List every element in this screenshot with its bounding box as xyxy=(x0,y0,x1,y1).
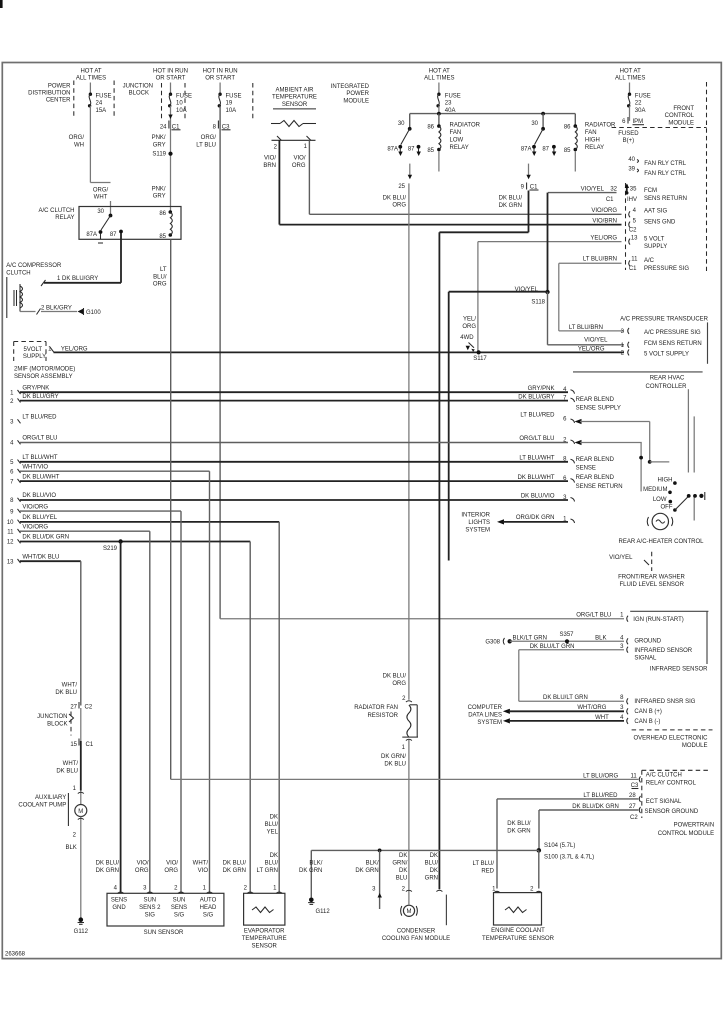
svg-text:RADIATOR: RADIATOR xyxy=(450,123,481,129)
svg-text:SUPPLY: SUPPLY xyxy=(23,354,46,360)
svg-text:A/C COMPRESSOR: A/C COMPRESSOR xyxy=(6,263,62,269)
svg-text:M: M xyxy=(407,909,412,915)
svg-text:COMPUTER: COMPUTER xyxy=(468,705,503,711)
svg-text:C1: C1 xyxy=(86,742,94,748)
svg-text:VIO/: VIO/ xyxy=(264,156,276,162)
svg-text:28: 28 xyxy=(629,793,636,799)
svg-text:GRN/: GRN/ xyxy=(392,861,407,867)
svg-text:1: 1 xyxy=(304,144,308,150)
svg-text:4: 4 xyxy=(620,715,624,721)
svg-text:BLK: BLK xyxy=(65,845,76,851)
svg-text:FLUID LEVEL SENSOR: FLUID LEVEL SENSOR xyxy=(619,582,684,588)
svg-text:1: 1 xyxy=(273,886,277,892)
svg-text:LT BLU/RED: LT BLU/RED xyxy=(22,415,57,421)
svg-text:85: 85 xyxy=(564,148,571,154)
svg-text:6: 6 xyxy=(10,469,14,475)
svg-text:INFRARED SNSR SIG: INFRARED SNSR SIG xyxy=(634,699,695,705)
svg-text:MEDIUM: MEDIUM xyxy=(643,487,667,493)
svg-text:ORG: ORG xyxy=(135,868,149,874)
svg-text:CENTER: CENTER xyxy=(46,98,71,104)
svg-text:RADIATOR: RADIATOR xyxy=(585,123,616,129)
svg-text:S/G: S/G xyxy=(174,913,185,919)
svg-text:M: M xyxy=(78,809,83,815)
svg-text:6: 6 xyxy=(563,416,567,422)
svg-text:RADIATOR FAN: RADIATOR FAN xyxy=(354,705,398,711)
svg-text:CONTROLLER: CONTROLLER xyxy=(645,384,687,390)
svg-text:DK GRN: DK GRN xyxy=(499,203,522,209)
svg-text:8: 8 xyxy=(10,498,14,504)
svg-text:87: 87 xyxy=(542,146,549,152)
svg-text:4WD: 4WD xyxy=(460,335,474,341)
svg-text:DK BLU/: DK BLU/ xyxy=(223,861,247,867)
svg-text:ALL TIMES: ALL TIMES xyxy=(615,76,645,82)
svg-text:2: 2 xyxy=(402,696,406,702)
svg-text:FAN RLY CTRL: FAN RLY CTRL xyxy=(644,161,686,167)
svg-text:SYSTEM: SYSTEM xyxy=(477,720,502,726)
svg-text:DK BLU/: DK BLU/ xyxy=(383,673,407,679)
svg-text:87: 87 xyxy=(408,146,415,152)
svg-text:DK: DK xyxy=(399,868,407,874)
svg-text:85: 85 xyxy=(159,234,166,240)
svg-text:RELAY CONTROL: RELAY CONTROL xyxy=(646,781,697,787)
svg-text:POWERTRAIN: POWERTRAIN xyxy=(674,823,715,829)
svg-text:87A: 87A xyxy=(521,146,532,152)
svg-text:C1: C1 xyxy=(629,266,637,272)
svg-text:LT BLU/: LT BLU/ xyxy=(473,861,495,867)
svg-text:BLOCK: BLOCK xyxy=(47,722,67,728)
svg-text:C2: C2 xyxy=(629,228,637,234)
svg-text:A/C CLUTCH: A/C CLUTCH xyxy=(38,208,74,214)
svg-text:MODULE: MODULE xyxy=(668,120,694,126)
svg-text:DK BLU/GRY: DK BLU/GRY xyxy=(518,394,554,400)
svg-text:GROUND: GROUND xyxy=(634,639,661,645)
svg-text:SIGNAL: SIGNAL xyxy=(634,656,657,662)
svg-text:LT BLU/WHT: LT BLU/WHT xyxy=(519,456,554,462)
svg-text:15: 15 xyxy=(70,742,77,748)
svg-text:ORG/LT BLU: ORG/LT BLU xyxy=(576,612,611,618)
svg-text:SENSE: SENSE xyxy=(576,465,596,471)
svg-text:SYSTEM: SYSTEM xyxy=(465,527,490,533)
svg-text:BLU: BLU xyxy=(396,876,408,882)
svg-text:LOW: LOW xyxy=(450,138,464,144)
svg-text:3: 3 xyxy=(10,420,14,426)
svg-text:VIO/ORG: VIO/ORG xyxy=(22,524,48,530)
svg-text:86: 86 xyxy=(427,125,434,131)
svg-text:CONDENSER: CONDENSER xyxy=(397,928,436,934)
svg-text:10A: 10A xyxy=(176,108,187,114)
svg-text:BLU/: BLU/ xyxy=(265,861,279,867)
svg-text:VIO/: VIO/ xyxy=(166,861,178,867)
svg-text:FUSE: FUSE xyxy=(226,93,242,99)
svg-text:DK BLU/YEL: DK BLU/YEL xyxy=(22,515,57,521)
svg-text:REAR HVAC: REAR HVAC xyxy=(650,376,685,382)
svg-text:1: 1 xyxy=(203,886,207,892)
svg-text:AUTO: AUTO xyxy=(200,898,217,904)
svg-text:15A: 15A xyxy=(96,108,107,114)
svg-text:BLOCK: BLOCK xyxy=(129,91,149,97)
svg-text:12: 12 xyxy=(7,540,14,546)
svg-text:LT BLU/ORG: LT BLU/ORG xyxy=(583,773,618,779)
svg-text:BLU/: BLU/ xyxy=(265,822,279,828)
svg-text:A/C PRESSURE TRANSDUCER: A/C PRESSURE TRANSDUCER xyxy=(620,317,709,323)
svg-text:CONTROL MODULE: CONTROL MODULE xyxy=(658,831,714,837)
svg-text:WHT/VIO: WHT/VIO xyxy=(22,464,48,470)
svg-text:REAR BLEND: REAR BLEND xyxy=(576,475,615,481)
svg-text:2: 2 xyxy=(10,399,14,405)
svg-text:VIO/ORG: VIO/ORG xyxy=(591,208,617,214)
svg-text:VIO: VIO xyxy=(198,868,209,874)
svg-text:DK BLU/: DK BLU/ xyxy=(96,861,120,867)
svg-text:PRESSURE SIG: PRESSURE SIG xyxy=(644,266,689,272)
svg-text:INFRARED SENSOR: INFRARED SENSOR xyxy=(634,648,692,654)
svg-text:AUXILIARY: AUXILIARY xyxy=(35,795,66,801)
svg-text:87A: 87A xyxy=(387,146,398,152)
svg-text:TEMPERATURE SENSOR: TEMPERATURE SENSOR xyxy=(482,936,555,942)
svg-text:WHT: WHT xyxy=(94,194,108,200)
svg-text:3: 3 xyxy=(621,329,625,335)
svg-text:BLK/LT GRN: BLK/LT GRN xyxy=(513,635,547,641)
svg-text:ORG/LT BLU: ORG/LT BLU xyxy=(519,436,554,442)
svg-text:ALL TIMES: ALL TIMES xyxy=(76,76,106,82)
svg-text:9: 9 xyxy=(521,185,525,191)
svg-text:DISTRIBUTION: DISTRIBUTION xyxy=(28,91,70,97)
svg-text:DK: DK xyxy=(430,868,438,874)
svg-text:5 VOLT: 5 VOLT xyxy=(644,236,665,242)
svg-text:WHT/ORG: WHT/ORG xyxy=(577,705,606,711)
svg-text:A/C CLUTCH: A/C CLUTCH xyxy=(646,772,682,778)
svg-text:1: 1 xyxy=(73,786,77,792)
svg-text:30: 30 xyxy=(531,121,538,127)
svg-text:11: 11 xyxy=(7,529,14,535)
svg-text:1: 1 xyxy=(402,745,406,751)
svg-text:VIO/: VIO/ xyxy=(293,156,305,162)
svg-text:FAN RLY CTRL: FAN RLY CTRL xyxy=(644,171,686,177)
svg-text:SENSOR GROUND: SENSOR GROUND xyxy=(645,809,699,815)
svg-text:25: 25 xyxy=(398,184,405,190)
svg-text:ORG/: ORG/ xyxy=(93,187,109,193)
svg-text:4: 4 xyxy=(620,635,624,641)
svg-text:PNK/: PNK/ xyxy=(152,135,166,141)
svg-text:ORG: ORG xyxy=(392,681,406,687)
svg-text:40: 40 xyxy=(628,157,635,163)
svg-text:DK GRN: DK GRN xyxy=(299,868,322,874)
svg-text:IGN (RUN-START): IGN (RUN-START) xyxy=(633,617,683,623)
svg-text:2MIF (MOTOR/MODE): 2MIF (MOTOR/MODE) xyxy=(14,367,75,373)
svg-text:DK BLU/DK GRN: DK BLU/DK GRN xyxy=(22,535,69,541)
svg-text:24: 24 xyxy=(160,124,167,130)
svg-text:SENS RETURN: SENS RETURN xyxy=(644,196,687,202)
svg-text:86: 86 xyxy=(159,211,166,217)
svg-text:BLK/: BLK/ xyxy=(309,861,322,867)
svg-text:WHT/DK BLU: WHT/DK BLU xyxy=(22,554,59,560)
svg-text:BLK/: BLK/ xyxy=(366,861,379,867)
svg-text:DATA LINES: DATA LINES xyxy=(468,712,502,718)
svg-text:8: 8 xyxy=(213,124,217,130)
svg-text:TEMPERATURE: TEMPERATURE xyxy=(272,95,317,101)
svg-text:87A: 87A xyxy=(86,232,97,238)
svg-text:A/C: A/C xyxy=(644,258,655,264)
svg-text:VIO/: VIO/ xyxy=(137,861,149,867)
svg-text:2: 2 xyxy=(621,351,625,357)
svg-text:DK BLU/DK GRN: DK BLU/DK GRN xyxy=(572,804,619,810)
svg-text:2: 2 xyxy=(174,886,178,892)
svg-text:SENSE RETURN: SENSE RETURN xyxy=(576,484,623,490)
svg-text:S117: S117 xyxy=(473,356,487,362)
svg-text:GRN: GRN xyxy=(425,876,438,882)
svg-text:13: 13 xyxy=(7,559,14,565)
svg-text:13: 13 xyxy=(631,236,638,242)
svg-text:27: 27 xyxy=(70,705,77,711)
svg-text:2: 2 xyxy=(274,144,278,150)
svg-text:YEL/ORG: YEL/ORG xyxy=(590,236,617,242)
svg-text:PNK/: PNK/ xyxy=(152,187,166,193)
svg-text:DK GRN: DK GRN xyxy=(507,828,530,834)
svg-text:HOT IN RUN: HOT IN RUN xyxy=(203,68,238,74)
svg-text:SENS: SENS xyxy=(111,898,127,904)
svg-text:BRN: BRN xyxy=(263,163,276,169)
svg-text:BLU/: BLU/ xyxy=(153,274,167,280)
svg-text:3: 3 xyxy=(620,705,624,711)
svg-text:COOLANT PUMP: COOLANT PUMP xyxy=(18,803,66,809)
svg-text:2 BLK/GRY: 2 BLK/GRY xyxy=(41,305,72,311)
svg-text:87: 87 xyxy=(110,232,117,238)
svg-text:INFRARED SENSOR: INFRARED SENSOR xyxy=(650,666,708,672)
svg-text:86: 86 xyxy=(564,125,571,131)
svg-text:VIO/ORG: VIO/ORG xyxy=(22,504,48,510)
svg-text:DK BLU/VIO: DK BLU/VIO xyxy=(22,493,56,499)
svg-text:S/G: S/G xyxy=(203,913,214,919)
svg-text:22: 22 xyxy=(635,101,642,107)
svg-text:24: 24 xyxy=(96,101,103,107)
svg-text:7: 7 xyxy=(10,479,14,485)
svg-text:C2: C2 xyxy=(630,815,638,821)
svg-text:ORG/LT BLU: ORG/LT BLU xyxy=(22,436,57,442)
svg-text:ECT SIGNAL: ECT SIGNAL xyxy=(646,799,682,805)
svg-text:ORG: ORG xyxy=(292,163,306,169)
svg-text:S219: S219 xyxy=(103,546,118,552)
svg-text:SUN: SUN xyxy=(143,898,156,904)
svg-text:ENGINE COOLANT: ENGINE COOLANT xyxy=(491,928,545,934)
svg-text:EVAPORATOR: EVAPORATOR xyxy=(244,928,285,934)
svg-text:11: 11 xyxy=(631,257,638,263)
svg-text:G112: G112 xyxy=(74,929,89,935)
svg-text:1: 1 xyxy=(10,390,14,396)
svg-text:SUPPLY: SUPPLY xyxy=(644,244,667,250)
svg-text:32: 32 xyxy=(610,187,617,193)
svg-text:A/C PRESSURE SIG: A/C PRESSURE SIG xyxy=(644,330,701,336)
svg-text:DK: DK xyxy=(270,853,278,859)
svg-text:S104 (5.7L): S104 (5.7L) xyxy=(544,843,575,849)
svg-text:REAR BLEND: REAR BLEND xyxy=(576,397,615,403)
svg-text:30: 30 xyxy=(398,121,405,127)
svg-text:DK GRN: DK GRN xyxy=(96,868,119,874)
svg-text:POWER: POWER xyxy=(346,91,369,97)
svg-text:INTERIOR: INTERIOR xyxy=(461,512,490,518)
svg-text:IHV: IHV xyxy=(627,197,637,203)
svg-text:CLUTCH: CLUTCH xyxy=(6,270,30,276)
svg-text:DK BLU/VIO: DK BLU/VIO xyxy=(521,494,555,500)
svg-text:INTEGRATED: INTEGRATED xyxy=(331,84,370,90)
svg-text:5VOLT: 5VOLT xyxy=(24,347,43,353)
svg-text:DK GRN: DK GRN xyxy=(355,868,378,874)
svg-text:TEMPERATURE: TEMPERATURE xyxy=(242,936,287,942)
svg-text:LT GRN: LT GRN xyxy=(257,868,278,874)
svg-text:5: 5 xyxy=(633,219,637,225)
svg-text:FUSE: FUSE xyxy=(176,93,192,99)
svg-text:GRY: GRY xyxy=(153,194,166,200)
svg-text:19: 19 xyxy=(226,101,233,107)
svg-text:DK BLU: DK BLU xyxy=(384,762,406,768)
svg-text:CAN B (-): CAN B (-) xyxy=(634,719,660,725)
svg-text:FCM: FCM xyxy=(644,188,657,194)
svg-text:RELAY: RELAY xyxy=(450,145,469,151)
svg-text:3: 3 xyxy=(372,887,376,893)
svg-text:2: 2 xyxy=(530,886,534,892)
svg-text:SENSE SUPPLY: SENSE SUPPLY xyxy=(576,405,621,411)
svg-text:3: 3 xyxy=(620,644,624,650)
svg-text:LT BLU/WHT: LT BLU/WHT xyxy=(22,455,57,461)
svg-text:ALL TIMES: ALL TIMES xyxy=(424,76,454,82)
svg-text:2: 2 xyxy=(73,833,77,839)
svg-text:2: 2 xyxy=(244,886,248,892)
svg-text:HOT AT: HOT AT xyxy=(620,68,641,74)
svg-text:FUSE: FUSE xyxy=(96,93,112,99)
svg-text:FAN: FAN xyxy=(450,130,462,136)
svg-text:VIO/BRN: VIO/BRN xyxy=(592,218,617,224)
svg-text:YEL/: YEL/ xyxy=(463,317,476,323)
svg-text:C2: C2 xyxy=(85,705,93,711)
svg-text:10: 10 xyxy=(7,520,14,526)
svg-text:REAR A/C-HEATER CONTROL: REAR A/C-HEATER CONTROL xyxy=(619,539,705,545)
svg-text:C1: C1 xyxy=(606,197,614,203)
svg-text:DK: DK xyxy=(399,853,407,859)
svg-text:HIGH: HIGH xyxy=(658,478,673,484)
svg-text:9: 9 xyxy=(10,509,14,515)
svg-text:AAT SIG: AAT SIG xyxy=(644,209,667,215)
svg-text:30: 30 xyxy=(97,209,104,215)
svg-text:HOT AT: HOT AT xyxy=(80,68,101,74)
svg-text:ORG: ORG xyxy=(392,203,406,209)
svg-text:DK GRN/: DK GRN/ xyxy=(381,754,406,760)
svg-text:DK: DK xyxy=(430,853,438,859)
svg-text:CONTROL: CONTROL xyxy=(665,113,695,119)
svg-text:5 VOLT SUPPLY: 5 VOLT SUPPLY xyxy=(644,351,689,357)
svg-text:POWER: POWER xyxy=(48,84,71,90)
svg-text:OR START: OR START xyxy=(156,76,186,82)
svg-text:S100 (3.7L & 4.7L): S100 (3.7L & 4.7L) xyxy=(544,855,594,861)
svg-text:S357: S357 xyxy=(559,632,574,638)
svg-text:FRONT/REAR WASHER: FRONT/REAR WASHER xyxy=(618,574,685,580)
svg-text:DK BLU/WHT: DK BLU/WHT xyxy=(517,475,554,481)
svg-text:23: 23 xyxy=(445,101,452,107)
svg-text:GRY/PNK: GRY/PNK xyxy=(22,385,49,391)
svg-text:SENS GND: SENS GND xyxy=(644,220,676,226)
svg-text:FAN: FAN xyxy=(585,130,597,136)
svg-text:263668: 263668 xyxy=(5,951,26,957)
svg-text:LT BLU: LT BLU xyxy=(196,142,216,148)
svg-text:HEAD: HEAD xyxy=(200,905,217,911)
svg-text:LT BLU/BRN: LT BLU/BRN xyxy=(583,257,617,263)
svg-text:JUNCTION: JUNCTION xyxy=(37,714,67,720)
svg-text:RED: RED xyxy=(481,868,494,874)
svg-text:SENS 2: SENS 2 xyxy=(139,905,161,911)
svg-text:GND: GND xyxy=(112,905,126,911)
svg-text:FUSE: FUSE xyxy=(635,93,651,99)
svg-text:S118: S118 xyxy=(531,300,545,306)
svg-text:3: 3 xyxy=(143,886,147,892)
svg-text:35: 35 xyxy=(630,187,637,193)
svg-text:OR START: OR START xyxy=(205,76,235,82)
svg-text:HOT AT: HOT AT xyxy=(429,68,450,74)
svg-text:FRONT: FRONT xyxy=(673,106,694,112)
svg-text:DK BLU: DK BLU xyxy=(56,768,78,774)
svg-text:OFF: OFF xyxy=(661,505,673,511)
svg-text:ORG/: ORG/ xyxy=(201,135,217,141)
svg-text:BLU/: BLU/ xyxy=(425,861,439,867)
svg-text:G308: G308 xyxy=(485,640,500,646)
svg-text:6: 6 xyxy=(622,119,626,125)
svg-text:DK: DK xyxy=(270,815,278,821)
svg-text:WHT/: WHT/ xyxy=(63,761,79,767)
svg-text:GRY: GRY xyxy=(153,142,166,148)
svg-text:30A: 30A xyxy=(635,108,646,114)
svg-text:1: 1 xyxy=(620,612,624,618)
svg-text:10: 10 xyxy=(176,101,183,107)
svg-text:G112: G112 xyxy=(316,909,331,915)
svg-text:FUSED: FUSED xyxy=(618,131,639,137)
svg-text:ORG/DK GRN: ORG/DK GRN xyxy=(516,515,555,521)
svg-text:SUN: SUN xyxy=(173,898,186,904)
svg-text:SENS: SENS xyxy=(171,905,187,911)
svg-text:WHT/: WHT/ xyxy=(62,682,78,688)
svg-text:VIO/YEL: VIO/YEL xyxy=(609,555,633,561)
svg-text:REAR BLEND: REAR BLEND xyxy=(576,457,615,463)
svg-text:SIG: SIG xyxy=(145,913,156,919)
svg-text:LT BLU/RED: LT BLU/RED xyxy=(583,793,618,799)
svg-text:SENSOR: SENSOR xyxy=(282,102,308,108)
svg-text:B(+): B(+) xyxy=(623,138,635,144)
svg-text:4: 4 xyxy=(114,886,118,892)
svg-text:2: 2 xyxy=(402,887,406,893)
svg-text:YEL/ORG: YEL/ORG xyxy=(61,346,88,352)
svg-text:HIGH: HIGH xyxy=(585,138,600,144)
svg-text:ORG: ORG xyxy=(462,324,476,330)
svg-text:SUN SENSOR: SUN SENSOR xyxy=(144,930,184,936)
svg-text:ORG: ORG xyxy=(164,868,178,874)
svg-text:1 DK BLU/GRY: 1 DK BLU/GRY xyxy=(57,276,98,282)
svg-text:CAN B (+): CAN B (+) xyxy=(634,709,662,715)
svg-text:RELAY: RELAY xyxy=(585,145,604,151)
svg-text:G100: G100 xyxy=(86,310,101,316)
svg-text:RESISTOR: RESISTOR xyxy=(367,713,398,719)
svg-text:DK BLU/GRY: DK BLU/GRY xyxy=(22,394,58,400)
svg-text:LIGHTS: LIGHTS xyxy=(468,520,490,526)
svg-text:MODULE: MODULE xyxy=(682,743,708,749)
svg-text:SENSOR: SENSOR xyxy=(252,943,278,949)
svg-text:DK GRN: DK GRN xyxy=(223,868,246,874)
svg-text:DK BLU: DK BLU xyxy=(55,690,77,696)
svg-text:GRY/PNK: GRY/PNK xyxy=(528,386,555,392)
svg-text:LT: LT xyxy=(160,267,167,273)
svg-text:MODULE: MODULE xyxy=(343,98,369,104)
svg-text:WHT/: WHT/ xyxy=(193,861,209,867)
svg-text:39: 39 xyxy=(628,167,635,173)
svg-text:VIO/YEL: VIO/YEL xyxy=(584,337,608,343)
svg-text:JUNCTION: JUNCTION xyxy=(123,84,153,90)
svg-text:FUSE: FUSE xyxy=(445,93,461,99)
svg-text:AMBIENT AIR: AMBIENT AIR xyxy=(276,88,315,94)
svg-text:SENSOR ASSEMBLY: SENSOR ASSEMBLY xyxy=(14,374,73,380)
